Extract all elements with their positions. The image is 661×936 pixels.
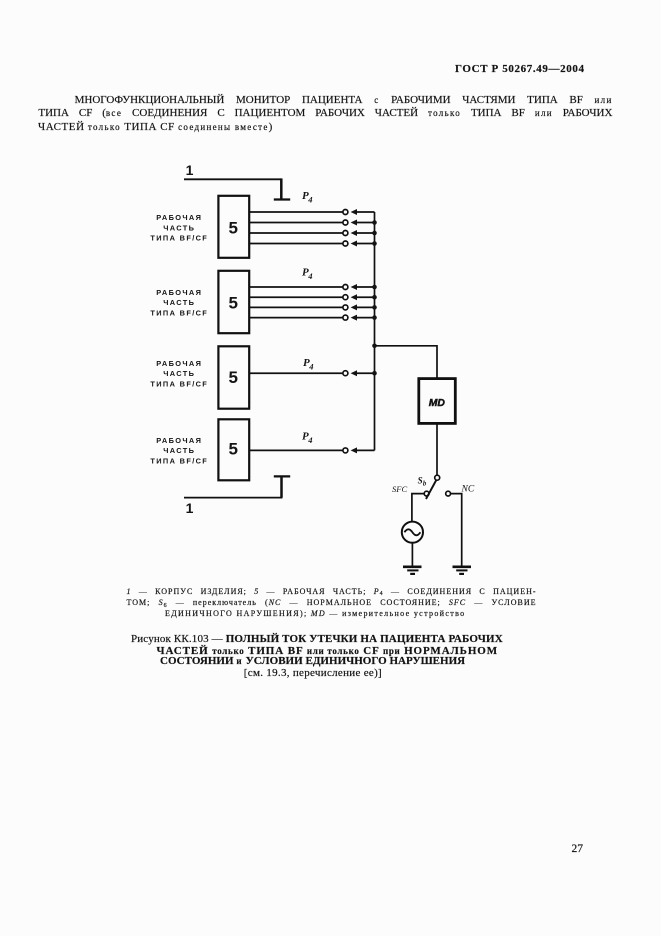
junction dots on bus: [372, 220, 377, 375]
svg-text:5: 5: [228, 368, 237, 387]
svg-text:РАБОЧАЯ: РАБОЧАЯ: [156, 359, 202, 368]
svg-text:ТИПА BF/CF: ТИПА BF/CF: [150, 234, 208, 243]
intro paragraph line 1: [75, 94, 613, 106]
switch Sb pivot contact: [435, 475, 440, 480]
legend line 2: [127, 598, 537, 607]
wire group 4: [249, 449, 343, 451]
label РАБОЧАЯ ЧАСТЬ ТИПА BF/CF (group 2): [150, 288, 208, 317]
label РАБОЧАЯ ЧАСТЬ ТИПА BF/CF (group 3): [150, 359, 208, 388]
legend line 1: [127, 587, 537, 596]
wires group 2: [249, 287, 343, 318]
label P4 (group 1): [302, 190, 313, 205]
wire arrow to bus (group 3): [356, 372, 375, 374]
svg-text:S: S: [418, 475, 423, 485]
node 1 (enclosure, top) label: [186, 162, 194, 178]
wire source to ground: [411, 543, 413, 566]
enclosure terminal bar (top): [274, 198, 290, 200]
wire group 3: [249, 372, 343, 374]
caption line 1: [131, 633, 503, 645]
svg-text:1: 1: [186, 162, 194, 178]
wire MD to switch pivot: [436, 423, 438, 476]
wires arrows to bus (group 1): [356, 212, 375, 244]
label РАБОЧАЯ ЧАСТЬ ТИПА BF/CF (group 4): [150, 436, 208, 465]
switch SFC contact: [424, 491, 429, 496]
patient connection circle (group 3): [343, 371, 348, 376]
caption line 2: [157, 645, 499, 657]
svg-text:ЧАСТЬ: ЧАСТЬ: [163, 223, 195, 232]
label P4 (group 2): [302, 267, 313, 282]
svg-text:MD: MD: [429, 398, 446, 409]
svg-text:4: 4: [307, 195, 312, 205]
measuring device MD: [419, 379, 456, 424]
svg-text:1: 1: [186, 500, 194, 516]
arrow into bus (group 4): [351, 447, 357, 453]
svg-text:РАБОЧАЯ: РАБОЧАЯ: [156, 288, 202, 297]
label P4 (group 3): [303, 357, 314, 372]
svg-text:SFC: SFC: [392, 484, 407, 494]
applied part box 5 (group 2): [218, 271, 249, 333]
node 1 (enclosure, bottom) label: [186, 500, 194, 516]
wire from enclosure terminal to node 1 (bottom): [184, 477, 282, 498]
patient connection circles (group 1): [343, 210, 348, 247]
svg-text:4: 4: [308, 361, 313, 371]
svg-text:ТИПА BF/CF: ТИПА BF/CF: [150, 456, 208, 465]
wire arrow to bus (group 4): [356, 449, 375, 451]
label NC: [461, 484, 475, 494]
svg-text:NC: NC: [461, 484, 475, 494]
svg-text:РАБОЧАЯ: РАБОЧАЯ: [156, 436, 202, 445]
caption line 4: [244, 667, 382, 679]
wires arrows to bus (group 2): [356, 287, 375, 318]
svg-text:5: 5: [228, 218, 237, 237]
ground (SFC side): [403, 567, 422, 574]
bus wire (vertical): [374, 212, 376, 450]
intro paragraph line 2: [38, 107, 612, 119]
page number: [570, 843, 583, 855]
applied part box 5 (group 3): [218, 346, 249, 408]
applied part box 5 (group 1): [218, 196, 249, 258]
switch blade: [426, 480, 436, 499]
arrow into bus (group 3): [351, 370, 357, 376]
caption line 3: [160, 655, 465, 667]
patient connection circle (group 4): [343, 448, 348, 453]
svg-text:ЧАСТЬ: ЧАСТЬ: [163, 369, 195, 378]
label P4 (group 4): [302, 431, 313, 446]
wire bus to MD: [375, 346, 438, 378]
label РАБОЧАЯ ЧАСТЬ ТИПА BF/CF (group 1): [150, 213, 208, 242]
svg-text:4: 4: [307, 271, 312, 281]
svg-text:4: 4: [307, 435, 312, 445]
svg-text:ТИПА BF/CF: ТИПА BF/CF: [150, 308, 208, 317]
SFC voltage source (AC): [402, 522, 423, 543]
header ГОСТ Р 50267.49—2004: [455, 63, 584, 75]
svg-text:ЧАСТЬ: ЧАСТЬ: [163, 446, 195, 455]
arrows into bus (group 2): [351, 284, 357, 321]
legend line 3: [165, 609, 466, 618]
wires group 1: box to patient connections: [249, 212, 343, 244]
applied part box 5 (group 4): [218, 419, 249, 480]
wire SFC contact to source: [412, 494, 424, 523]
enclosure terminal bar (bottom): [274, 475, 290, 477]
switch NC contact: [446, 491, 451, 496]
label Sb: [418, 475, 427, 487]
ground (NC side): [453, 567, 472, 574]
svg-text:5: 5: [228, 440, 237, 459]
svg-text:b: b: [423, 480, 427, 487]
svg-text:РАБОЧАЯ: РАБОЧАЯ: [156, 213, 202, 222]
svg-text:5: 5: [228, 294, 237, 313]
svg-text:ТИПА BF/CF: ТИПА BF/CF: [150, 379, 208, 388]
wire from node 1 to enclosure terminal (top): [184, 178, 281, 199]
svg-text:ЧАСТЬ: ЧАСТЬ: [163, 298, 195, 307]
label SFC: [392, 484, 407, 494]
patient connection circles (group 2): [343, 285, 348, 321]
intro paragraph line 3: [38, 121, 273, 133]
arrows into bus (group 1): [351, 209, 357, 247]
wire NC contact to ground: [451, 494, 462, 566]
